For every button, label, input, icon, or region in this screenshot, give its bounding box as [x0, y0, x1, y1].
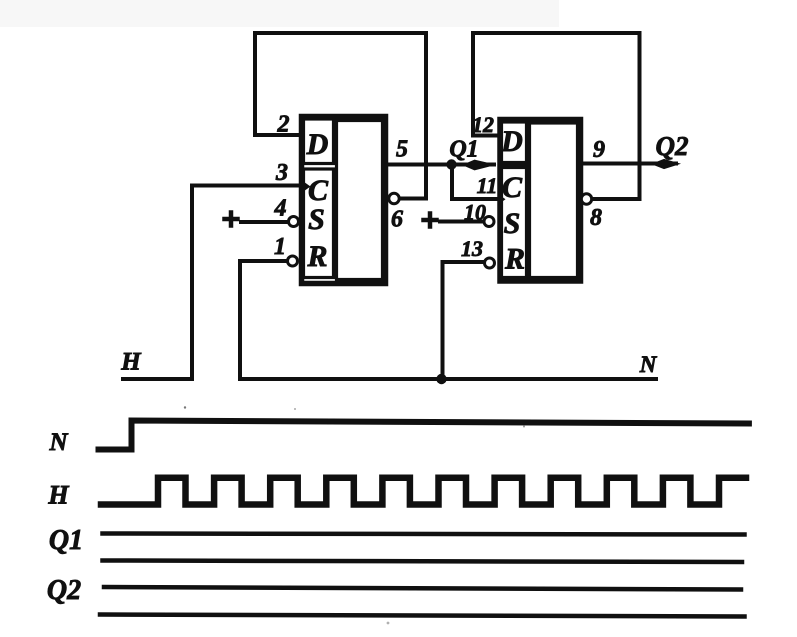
- clock edge wedge U1: [302, 181, 311, 193]
- U2 right sub-box: [530, 123, 578, 278]
- inverter bubble pin10 S U2: [484, 217, 494, 227]
- wire Q1 output pin5: [385, 163, 494, 167]
- waveform N: [99, 421, 749, 450]
- wire R pin13 U2 down to N rail: [443, 262, 485, 379]
- svg-text:2: 2: [277, 112, 290, 138]
- clock edge wedge U2: [498, 194, 506, 206]
- svg-text:S: S: [504, 207, 521, 240]
- waveform rail Q2 high: [104, 587, 741, 590]
- waveform rail Q1 high: [103, 534, 745, 535]
- arrow Q1: [462, 160, 497, 171]
- inverter bubble pin4 S U1: [289, 217, 299, 227]
- svg-text:11: 11: [477, 173, 498, 198]
- U2 feedback wire top bar: [473, 33, 640, 199]
- svg-text:D: D: [500, 125, 523, 158]
- svg-text:4: 4: [274, 196, 287, 222]
- svg-text:C: C: [502, 171, 523, 204]
- junction dot Q1 node: [446, 159, 456, 169]
- wire Q2 output pin9: [583, 162, 676, 166]
- flip-flop U1 outer box: [302, 117, 386, 284]
- scan speck: [523, 426, 525, 428]
- wire S pin4 U1: [241, 220, 288, 224]
- wire H input to C pin3 U1: [123, 186, 303, 380]
- svg-text:R: R: [306, 240, 327, 273]
- waveform rail Q1 low: [103, 561, 743, 563]
- scanner grey header strip: [0, 0, 559, 27]
- svg-text:13: 13: [461, 236, 483, 261]
- scan speck: [387, 622, 390, 625]
- wire pin2 D input U1: [255, 133, 301, 137]
- svg-text:H: H: [120, 349, 142, 376]
- U1 D input sub-box: [304, 119, 334, 164]
- wire R pin1 U1 down to N rail: [240, 261, 288, 379]
- svg-text:Q1: Q1: [449, 137, 478, 163]
- inverter bubble pin13 R U2: [485, 258, 495, 268]
- inverter bubble pin1 R U1: [288, 256, 298, 266]
- svg-text:S: S: [308, 203, 325, 236]
- inverter bubble pin6 Q-bar U1: [389, 193, 399, 203]
- arrow Q2: [651, 159, 681, 169]
- svg-text:N: N: [639, 352, 658, 377]
- svg-text:Q2: Q2: [47, 575, 81, 606]
- svg-text:8: 8: [590, 205, 602, 231]
- U1 feedback wire top bar: [255, 33, 426, 199]
- wire junction drop to C pin11 U2: [452, 165, 497, 200]
- U2 D input sub-box: [502, 122, 527, 163]
- svg-text:1: 1: [274, 234, 286, 260]
- svg-text:R: R: [504, 243, 525, 276]
- svg-text:10: 10: [464, 200, 486, 225]
- svg-text:3: 3: [275, 160, 288, 186]
- svg-text:5: 5: [396, 137, 408, 163]
- plus polarity mark U1 S: [225, 213, 238, 226]
- U2 CSR sub-box: [502, 168, 527, 278]
- svg-text:H: H: [47, 481, 69, 510]
- svg-text:Q1: Q1: [49, 525, 83, 556]
- N rail wire: [240, 377, 656, 381]
- flip-flop U2 outer box: [500, 120, 581, 282]
- U1 right sub-box: [337, 121, 383, 280]
- wire pin6 to feedback U1: [399, 197, 426, 201]
- wire pin12 D input U2: [473, 134, 499, 138]
- waveform H: [101, 478, 746, 505]
- wire S pin10 U2: [440, 220, 484, 224]
- svg-text:D: D: [306, 128, 329, 161]
- U2 D/CSR separator band: [500, 163, 527, 166]
- scan speck: [294, 408, 296, 410]
- U1 CSR sub-box: [304, 169, 334, 278]
- svg-text:12: 12: [472, 112, 494, 137]
- inverter bubble pin8 Q-bar U2: [581, 194, 591, 204]
- svg-text:6: 6: [391, 207, 403, 233]
- junction dot N rail node: [436, 374, 446, 384]
- svg-text:N: N: [48, 429, 68, 456]
- svg-text:9: 9: [593, 137, 605, 163]
- wire pin8 to feedback U2: [592, 197, 640, 201]
- waveform rail Q2 low: [100, 615, 745, 617]
- scan speck: [184, 406, 186, 408]
- plus polarity mark U2 S: [424, 214, 437, 227]
- svg-text:Q2: Q2: [656, 131, 689, 161]
